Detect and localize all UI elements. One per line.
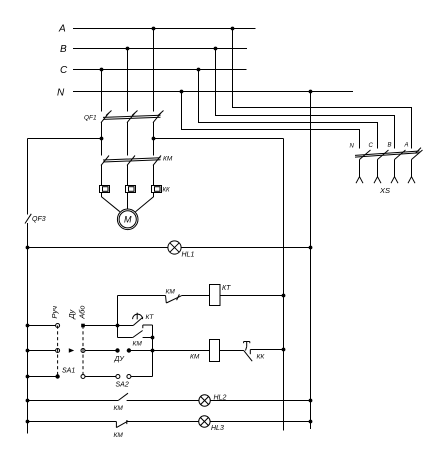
lamp HL2 [199,395,210,406]
svg-text:N: N [57,88,65,99]
terminal SA1 row2 col1 [56,349,60,353]
wire bus C [73,69,247,71]
junction B to XS feed [214,47,218,51]
thermal relay KK heater pole2 [126,186,136,193]
wire row2 to DU [85,350,118,352]
wire pole1 KM to KK [101,165,103,186]
contactor coil KM [210,340,220,362]
wire XS pole A lower [411,160,413,178]
svg-text:КМ: КМ [133,341,143,348]
wire bus N [73,91,353,93]
wire KT coil row left [118,295,166,297]
junction left rail row1 [26,324,30,328]
terminal SA1 row1 col1 [56,324,60,328]
svg-text:A: A [58,24,66,35]
switch XS contact A [412,150,423,160]
contact KM NO (HL2 row) [118,393,128,400]
wire row2 to KM coil [129,350,210,352]
terminal DU left [115,348,119,352]
switch XS contact B [395,150,406,160]
circuit breaker QF1 pole3 contact [153,111,164,123]
wire B feed to XS [216,49,395,149]
junction N rail HL2 row [309,399,313,403]
contactor KM linkage bar [103,158,161,162]
terminal SA1 row3 col2 [81,375,85,379]
switch XS contact C [378,150,389,160]
wire KM to HL2 [127,400,199,402]
svg-text:A: A [404,143,409,149]
terminal SA1 row1 col2 [81,324,85,328]
selector SA1 arrow [69,348,74,352]
wire C feed to XS [199,70,378,149]
svg-text:КК: КК [257,354,266,361]
switch XS linkage bar [355,151,420,157]
contactor KM main contact pole1 [101,156,109,166]
motor M [117,209,138,230]
circuit breaker QF3 contact [25,214,31,224]
socket XS terminal C [374,177,381,184]
svg-text:QF1: QF1 [84,115,97,122]
svg-text:Або: Або [78,305,87,319]
wire pole2 drop from B [127,49,129,112]
junction N bus to N rail [309,90,313,94]
switch XS bar end tick [415,148,421,154]
socket XS terminal N [356,177,363,184]
svg-text:C: C [369,143,374,149]
wire row1 to KT contact [83,325,133,327]
wire N feed to XS [182,92,360,149]
junction phase rail row2 [282,348,286,352]
wire HL1 row left [28,247,168,249]
svg-text:ДУ: ДУ [114,356,126,363]
lamp HL3 [199,416,210,427]
terminal DU right [127,348,131,352]
wire XS pole B lower [394,160,396,178]
terminal SA1 row3 col1 [55,374,59,378]
wire SA1 row2 left [28,350,56,352]
svg-text:SA1: SA1 [62,368,75,375]
wire pole1 QF1 to KM [101,122,103,156]
svg-text:ХS: ХS [379,186,390,195]
junction B to pole2 [126,47,130,51]
wire XS pole C lower [377,160,379,178]
circuit breaker QF1 pole2 contact [127,111,138,123]
selector SA1 linkage col1 dashed [57,326,59,377]
contactor KM main contact pole3 [153,156,161,166]
wire neutral rail [310,92,312,430]
junction left rail HL1 row [26,246,30,250]
pushbutton SA2 terminal right [127,375,131,379]
circuit breaker QF1 pole1 contact [101,111,112,123]
junction C to pole1 [100,68,104,72]
wire KM aux branch left [118,337,133,339]
wire phase rail [283,139,285,431]
wire pole3 drop from A [153,29,155,112]
wire pole2 KM to KK [127,165,129,186]
svg-text:КТ: КТ [222,285,231,292]
socket XS terminal B [391,177,398,184]
wire KK to phase rail [250,349,283,351]
wire pole3 QF1 to KM [153,122,155,156]
junction x153 row2 [151,349,155,353]
junction left rail row3 [26,375,30,379]
wire SA1 row1 left [28,325,56,327]
thermal relay KK heater pole1 [100,186,110,193]
lamp HL1 [168,241,181,254]
wire pole3 KM to KK [153,165,155,186]
junction N to XS feed [180,90,184,94]
wire SA1 row3 left [28,376,58,378]
svg-text:КМ: КМ [166,289,176,296]
wire pole2 to motor [127,193,129,209]
svg-text:QF3: QF3 [32,216,46,223]
wire control tap left y139 [28,138,102,140]
wire HL2 to N rail [210,400,310,402]
wire left rail upper [27,139,29,215]
svg-text:КТ: КТ [146,314,155,321]
wire KT contact right [143,325,153,328]
wire control tap right y139 [154,138,284,140]
wire row3 to SA2 [85,376,116,378]
svg-text:Ду: Ду [67,308,76,319]
junction left rail HL2 row [26,399,30,403]
junction x153 branch [151,336,155,340]
svg-text:КМ: КМ [190,354,200,361]
wire pole2 QF1 to KM [127,122,129,156]
svg-text:М: М [124,215,132,225]
terminal SA1 row2 col2 [81,349,85,353]
junction left rail row2 [26,349,30,353]
wire bus A [73,28,256,30]
junction phase rail KT coil row [282,294,286,298]
switch XS contact N [360,150,371,160]
svg-text:HL1: HL1 [182,252,195,259]
wire pole1 to motor [102,193,120,212]
selector SA1 linkage col2 dashed [82,326,84,377]
svg-text:B: B [388,143,392,149]
junction C to XS feed [197,68,201,72]
junction row1 x118 [116,324,120,328]
wire HL2 row left [28,400,119,402]
wire left rail lower [27,223,29,434]
contact KT timed NO [133,313,143,326]
wire pole1 drop from C [101,70,103,112]
junction pole1 y139 [100,137,104,141]
junction A to pole3 [152,27,156,31]
contact KK thermal NC [244,342,253,362]
wire KM coil to KK [220,350,244,352]
junction N rail HL3 row [309,420,313,424]
svg-text:КК: КК [163,188,171,194]
contact KM aux NO (KT coil row) [166,294,182,303]
svg-text:Руч: Руч [50,306,59,319]
wire KM contact to KT coil [181,295,210,297]
wire pole3 to motor [136,193,154,212]
wire bus B [73,48,247,50]
svg-text:HL3: HL3 [211,425,224,432]
wire SA2 to right node [131,376,153,378]
wire XS pole N lower [359,160,361,178]
wire HL1 row right [181,247,310,249]
contact KM aux NO (self hold) [133,331,143,338]
wire A feed to XS [233,29,412,149]
wire KT coil row left vertical [117,296,119,326]
wire KM to HL3 [127,421,199,423]
circuit breaker QF1 linkage bar [103,115,161,119]
svg-text:SA2: SA2 [116,382,129,389]
svg-text:КМ: КМ [114,432,124,439]
svg-text:N: N [350,144,355,150]
svg-text:КМ: КМ [163,156,173,163]
junction pole3 y139 [152,137,156,141]
svg-text:B: B [60,44,67,55]
wire right node vertical [152,325,154,377]
pushbutton SA2 terminal left [116,375,120,379]
wire KM aux branch right [143,337,153,339]
relay coil KT [210,285,221,306]
socket XS terminal A [408,177,415,184]
thermal relay KK heater pole3 [152,186,162,193]
svg-text:КМ: КМ [114,405,124,412]
contact KM NC (HL3 row) [116,420,128,428]
wire HL3 to N rail [210,421,310,423]
svg-text:C: C [60,65,68,76]
wire HL3 row left [28,421,117,423]
wire KM aux branch left vertical [117,326,119,338]
junction A to XS feed [231,27,235,31]
junction N rail HL1 row [309,246,313,250]
junction left rail HL3 row [26,420,30,424]
wire KT coil to phase rail [220,295,284,297]
contactor KM main contact pole2 [127,156,135,166]
